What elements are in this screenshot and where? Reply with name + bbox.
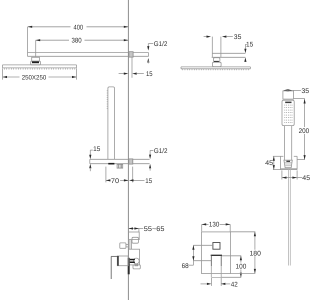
svg-text:45: 45 [265, 160, 273, 167]
mixer upper inwall box [129, 232, 140, 249]
hand shower bar [108, 87, 115, 159]
svg-text:250X250: 250X250 [22, 75, 47, 82]
hand shower nozzle ticks [107, 91, 108, 109]
handle base (side) [117, 256, 128, 266]
mixer plate [202, 232, 231, 274]
wall bracket [283, 91, 294, 99]
svg-text:15: 15 [146, 71, 153, 78]
lever [111, 256, 117, 279]
svg-text:130: 130 [209, 222, 220, 229]
holder cup [281, 156, 298, 169]
svg-text:15: 15 [93, 146, 100, 153]
flange lines (front view) [212, 53, 246, 57]
spray dots [284, 105, 292, 123]
dim 68 [182, 245, 195, 269]
dim 15 (front view) [244, 42, 253, 62]
shower head plate (side view) [3, 65, 77, 68]
hand shower head [282, 100, 294, 125]
svg-text:55~65: 55~65 [144, 226, 165, 233]
G1/2 label (middle) [149, 148, 168, 171]
svg-text:380: 380 [72, 38, 82, 45]
svg-text:70: 70 [111, 178, 119, 185]
dim 200 [294, 99, 310, 160]
holder plate lines [90, 159, 150, 163]
wall block on arm [129, 52, 133, 57]
line B (pivot centerline) [194, 260, 212, 262]
dim 35 (hand shower) [283, 88, 309, 95]
svg-text:100: 100 [236, 263, 247, 270]
wall block (holder) [129, 159, 133, 164]
svg-text:42: 42 [231, 281, 238, 288]
svg-text:35: 35 [301, 88, 309, 95]
G1/2 label (top) [147, 41, 167, 64]
dim 400 [28, 24, 129, 56]
dim 15 (right of wall) [129, 167, 152, 185]
ball joint (front view) [213, 58, 222, 67]
dim 45 (holder height) [265, 156, 280, 169]
nozzle ticks head 2 [183, 69, 249, 70]
dim 380 [36, 38, 129, 58]
wall line [127, 0, 129, 300]
dim 15 (arm wall offset) [119, 57, 153, 78]
dim 35 (front view head) [204, 34, 242, 41]
svg-text:200: 200 [299, 128, 310, 135]
dim 70 [106, 167, 128, 185]
handle cone in holder [284, 160, 292, 168]
diverter square [213, 243, 220, 250]
svg-text:G1/2: G1/2 [154, 41, 168, 48]
ball joint (side view) [31, 57, 41, 65]
nozzle ticks head 1 [4, 68, 75, 70]
dim 42 [201, 278, 239, 289]
svg-text:400: 400 [74, 24, 84, 31]
svg-text:35: 35 [234, 34, 242, 41]
dim 100 [221, 256, 247, 277]
dim 55~65 [129, 226, 165, 233]
dim 45 (holder width) [282, 170, 310, 182]
line A (diverter centerline) [193, 244, 213, 246]
supply pipe (front view) [212, 37, 221, 58]
dim 130 [202, 222, 231, 232]
dim 180 [231, 232, 262, 274]
clip box [117, 164, 123, 168]
diverter knob (side) [120, 243, 129, 248]
svg-text:180: 180 [250, 250, 262, 257]
head bar (front view) [181, 67, 250, 69]
hand shower handle [285, 126, 292, 161]
dim 15 (holder left) [89, 146, 100, 171]
mixer main body (side) [129, 249, 141, 269]
dim 250X250 [3, 68, 77, 81]
handle (front) [211, 255, 222, 277]
svg-text:68: 68 [182, 263, 189, 270]
svg-text:G1/2: G1/2 [154, 148, 168, 155]
dark dash under bar [108, 163, 114, 165]
svg-text:15: 15 [145, 178, 152, 185]
wall dark segment [128, 258, 130, 275]
hose [289, 170, 291, 266]
svg-text:15: 15 [246, 42, 253, 49]
shower arm pipe (side view) [28, 53, 149, 57]
svg-text:45: 45 [302, 175, 310, 182]
